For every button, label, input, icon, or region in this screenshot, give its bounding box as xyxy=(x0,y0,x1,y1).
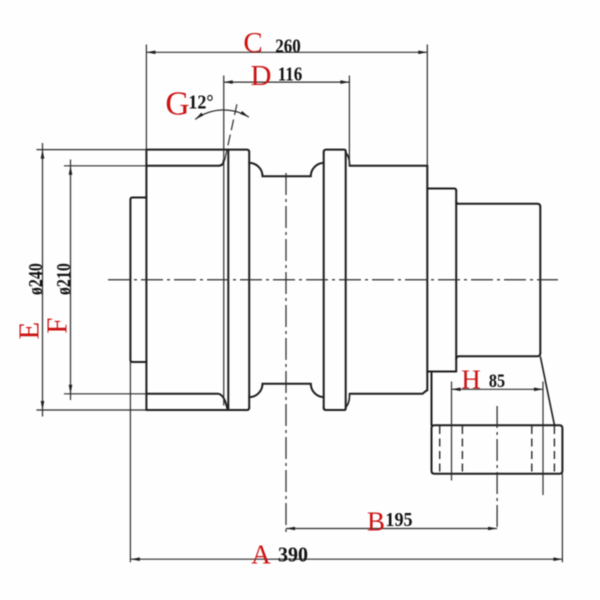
value 12 degrees xyxy=(188,91,213,114)
barrel bottom edge (ø240) xyxy=(146,408,249,410)
groove top profile xyxy=(249,163,324,176)
flange1 right face xyxy=(248,152,250,408)
dim F line xyxy=(70,160,72,401)
arrow A left xyxy=(131,557,140,561)
dim F top extension xyxy=(64,165,146,167)
dim D right extension xyxy=(348,76,350,165)
arrow A right xyxy=(553,557,562,561)
value 85 xyxy=(489,371,505,393)
dim D line xyxy=(224,81,350,83)
hidden bolt hole line 1 xyxy=(439,426,441,474)
label F xyxy=(41,317,74,333)
dim H line xyxy=(452,388,544,390)
flange2 right face xyxy=(345,152,347,409)
value 116 xyxy=(278,63,303,86)
support slant line xyxy=(541,357,555,425)
flange2 bottom edge xyxy=(324,408,346,410)
flange2 left face xyxy=(323,152,325,408)
arrow F bottom xyxy=(69,385,73,394)
label C xyxy=(243,27,262,60)
horizontal centerline xyxy=(108,279,558,281)
value dia 240 xyxy=(26,263,48,295)
dim A left extension xyxy=(129,362,131,562)
value 195 xyxy=(385,510,412,532)
dim B line xyxy=(286,528,497,530)
arrow B right xyxy=(488,527,497,531)
value 390 xyxy=(278,543,308,568)
shaft bottom edge xyxy=(456,353,540,359)
value 260 xyxy=(275,35,301,58)
arrow D left xyxy=(224,80,233,84)
dim E top extension xyxy=(36,149,146,151)
dim H right extension xyxy=(542,382,544,496)
hidden bolt hole line 2 xyxy=(461,426,463,474)
dim E bottom extension xyxy=(36,409,146,411)
hidden bolt hole line 4 xyxy=(553,426,555,474)
shoulder face xyxy=(455,191,457,372)
angle G arc xyxy=(195,110,249,119)
shaft top edge xyxy=(456,202,540,207)
dim F bottom extension xyxy=(64,393,146,395)
arrow C right xyxy=(418,51,427,55)
right barrel top edge xyxy=(350,165,428,167)
barrel right face xyxy=(426,166,428,391)
arrow B left xyxy=(286,527,295,531)
flange2 top edge xyxy=(324,150,346,152)
arrow E bottom xyxy=(41,401,45,410)
groove bottom profile xyxy=(249,384,324,397)
mounting block outline xyxy=(432,425,563,473)
hidden bolt hole line 3 xyxy=(531,426,533,474)
label G xyxy=(165,85,189,123)
label H xyxy=(461,364,481,395)
right barrel bottom edge with chamfer xyxy=(350,390,427,394)
vertical centerline xyxy=(285,173,287,533)
arrow H left xyxy=(452,388,461,392)
dim H left extension xyxy=(451,382,453,481)
block centerline xyxy=(496,406,498,530)
arrow G arc left xyxy=(195,113,203,120)
label A xyxy=(251,539,271,570)
tread bottom edge (ø210) xyxy=(146,394,227,409)
flange1 left face xyxy=(227,150,229,410)
retainer collar xyxy=(130,198,146,363)
shaft end face xyxy=(539,207,541,354)
step ring top xyxy=(427,189,456,191)
dim C right extension xyxy=(426,45,428,166)
dim E line xyxy=(42,143,44,417)
arrow D right xyxy=(340,80,349,84)
dim A line xyxy=(131,558,563,560)
fillet flange2 to right barrel top xyxy=(346,153,350,166)
value dia 210 xyxy=(54,263,76,295)
label D xyxy=(251,60,272,93)
dim D left extension / flange tangent xyxy=(223,76,225,406)
arrow E top xyxy=(41,150,45,159)
fillet flange2 to right barrel bottom xyxy=(346,394,350,407)
dim C line xyxy=(146,51,427,53)
label E xyxy=(13,321,46,339)
arrow F top xyxy=(69,166,73,175)
label B xyxy=(367,506,385,537)
dim A right extension xyxy=(561,474,563,563)
body left face xyxy=(145,150,147,410)
arrow G arc right xyxy=(240,111,249,117)
block left face upper extension xyxy=(431,373,433,426)
step ring bottom xyxy=(427,371,456,373)
tread top edge (ø210) xyxy=(146,160,223,166)
angle G 12deg slant line xyxy=(225,104,237,161)
arrow C left xyxy=(146,51,155,55)
arrow H right xyxy=(534,388,543,392)
barrel top edge (ø240) xyxy=(146,150,249,152)
dim C left extension xyxy=(145,45,147,150)
